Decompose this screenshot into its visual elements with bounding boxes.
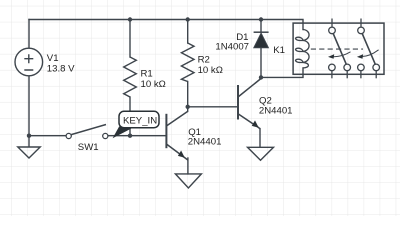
wire SW1 to Q1 base	[108, 135, 166, 137]
wire Q2 emitter to ground	[259, 129, 261, 148]
wire D1 top lead	[260, 20, 262, 33]
svg-text:SW1: SW1	[78, 142, 99, 153]
wire R2 top lead	[187, 20, 189, 44]
svg-text:13.8 V: 13.8 V	[47, 63, 75, 74]
resistor R2	[181, 43, 194, 82]
resistor R1	[124, 57, 137, 97]
svg-text:10 kΩ: 10 kΩ	[198, 65, 223, 76]
junction node top rail D1	[259, 17, 263, 21]
svg-text:10 kΩ: 10 kΩ	[141, 79, 166, 90]
junction node KEY_IN / R1 bottom	[128, 134, 132, 138]
svg-text:KEY_IN: KEY_IN	[123, 115, 157, 126]
wire R1 top lead	[129, 20, 131, 58]
node label KEY_IN	[113, 111, 159, 138]
svg-text:K1: K1	[273, 45, 285, 56]
wire Q1 collector vertical	[187, 107, 189, 112]
ground (below Q1)	[175, 174, 201, 188]
transistor Q2	[238, 79, 261, 129]
relay coil	[296, 30, 310, 69]
relay contact B	[357, 19, 380, 79]
wire top rail	[29, 19, 261, 21]
junction node V1 bottom	[27, 134, 31, 138]
ground (below V1)	[18, 136, 40, 158]
svg-text:2N4401: 2N4401	[188, 137, 222, 148]
wire R2 junction to Q2 base	[188, 106, 238, 108]
svg-text:R1: R1	[141, 69, 153, 80]
transistor Q1	[166, 111, 187, 160]
relay box	[293, 23, 384, 74]
voltage source V1	[15, 48, 43, 76]
relay K1	[293, 19, 384, 79]
junction node D1 / Q2 collector / K1 coil	[259, 75, 263, 79]
wire R1 bottom lead	[129, 97, 131, 136]
junction node top rail R1	[128, 17, 132, 21]
relay contact A	[328, 19, 351, 79]
wire D1 bottom lead	[260, 48, 262, 78]
wire V1 to SW1	[29, 135, 66, 137]
svg-text:1N4007: 1N4007	[215, 42, 249, 53]
svg-text:2N4401: 2N4401	[259, 105, 293, 116]
wire R2 bottom lead	[187, 82, 189, 107]
ground (below Q2)	[248, 147, 274, 160]
wire D1 junction to coil	[261, 68, 303, 77]
junction node R2 / Q1 collector / Q2 base	[186, 105, 190, 109]
switch SW1	[66, 125, 108, 139]
diode D1	[254, 32, 269, 48]
wire V1 top lead	[28, 20, 30, 49]
wire Q1 emitter to ground	[187, 158, 189, 174]
junction node top rail R2	[186, 17, 190, 21]
relay actuation dashed link	[311, 48, 363, 50]
svg-text:R2: R2	[198, 55, 210, 66]
wire V1 bottom lead	[28, 76, 30, 136]
wire rail to relay coil	[261, 20, 303, 30]
